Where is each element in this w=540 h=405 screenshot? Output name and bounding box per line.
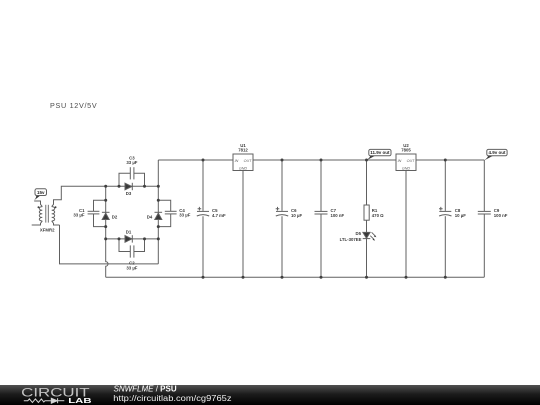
- wire top rail: bridge to U1: [158, 159, 233, 161]
- wire secondary top to bridge: [54, 186, 106, 202]
- svg-text:LAB: LAB: [68, 397, 91, 405]
- wire secondary bottom to bridge (with hop): [60, 225, 159, 264]
- junction dots bridge: [104, 185, 160, 241]
- capacitor C6: [276, 160, 303, 277]
- regulator U1 7812: [233, 143, 253, 277]
- wire bridge left column: [106, 186, 108, 277]
- wire top rail: U2 to C9: [416, 159, 484, 161]
- svg-text:XFMR2: XFMR2: [40, 228, 55, 233]
- svg-text:4.7 mF: 4.7 mF: [212, 213, 226, 218]
- diode D4: [147, 212, 162, 219]
- svg-text:15v: 15v: [37, 190, 45, 195]
- svg-text:10 µF: 10 µF: [455, 213, 466, 218]
- svg-text:33 µF: 33 µF: [73, 213, 84, 218]
- diode D1: [125, 230, 132, 243]
- svg-text:IN: IN: [398, 159, 402, 163]
- wire D1 branch: [106, 238, 159, 240]
- svg-text:D5: D5: [356, 231, 362, 236]
- wire D3 branch: [106, 185, 159, 187]
- voltage flag 15v: [33, 189, 46, 201]
- svg-text:33 µF: 33 µF: [126, 160, 137, 165]
- diode D2: [102, 212, 118, 219]
- svg-text:4.9v out: 4.9v out: [488, 150, 506, 155]
- wire bridge right column: [157, 160, 159, 264]
- capacitor C8: [439, 160, 466, 277]
- voltage flag 11.9v out: [366, 149, 391, 160]
- svg-text:GND: GND: [402, 166, 411, 170]
- svg-text:IN: IN: [235, 159, 239, 163]
- voltage flag 4.9v out: [484, 149, 507, 160]
- svg-text:OUT: OUT: [407, 159, 416, 163]
- svg-text:33 µF: 33 µF: [126, 265, 137, 270]
- svg-text:11.9v out: 11.9v out: [370, 150, 390, 155]
- logo resistor + diode glyph: [24, 398, 65, 403]
- LED D5: [340, 231, 377, 277]
- svg-text:GND: GND: [239, 166, 248, 170]
- capacitor C1: [73, 200, 105, 226]
- svg-text:100 nF: 100 nF: [494, 213, 508, 218]
- svg-text:7812: 7812: [238, 148, 248, 153]
- regulator U2 7805: [396, 143, 416, 277]
- footer bar: [0, 385, 540, 405]
- svg-text:10 µF: 10 µF: [291, 213, 302, 218]
- svg-text:http://circuitlab.com/cg9765z: http://circuitlab.com/cg9765z: [113, 394, 231, 403]
- svg-text:PSU 12V/5V: PSU 12V/5V: [50, 101, 97, 110]
- svg-text:D2: D2: [112, 214, 118, 219]
- junction dots bottom rail: [202, 276, 447, 279]
- diode D3: [125, 183, 132, 196]
- junction dots top rail: [202, 159, 447, 162]
- capacitor C2: [119, 239, 145, 271]
- capacitor C4: [158, 200, 190, 226]
- svg-text:D1: D1: [126, 230, 132, 235]
- svg-text:470 Ω: 470 Ω: [372, 213, 384, 218]
- svg-text:33 µF: 33 µF: [179, 213, 190, 218]
- capacitor C3: [119, 155, 145, 186]
- svg-text:7805: 7805: [401, 148, 411, 153]
- capacitor C7: [315, 160, 345, 277]
- svg-text:D3: D3: [126, 191, 132, 196]
- capacitor C5: [197, 160, 226, 277]
- wire top rail: U1 to U2: [253, 159, 396, 161]
- svg-text:OUT: OUT: [244, 159, 253, 163]
- svg-text:D4: D4: [147, 214, 153, 219]
- resistor R1: [364, 160, 384, 233]
- wire ground rail: [106, 276, 485, 278]
- transformer XFMR2: [32, 201, 60, 233]
- svg-text:LTL-307EE: LTL-307EE: [340, 237, 362, 242]
- svg-text:100 nF: 100 nF: [331, 213, 345, 218]
- capacitor C9: [478, 160, 508, 277]
- svg-text:SNWFLME / PSU: SNWFLME / PSU: [114, 384, 177, 393]
